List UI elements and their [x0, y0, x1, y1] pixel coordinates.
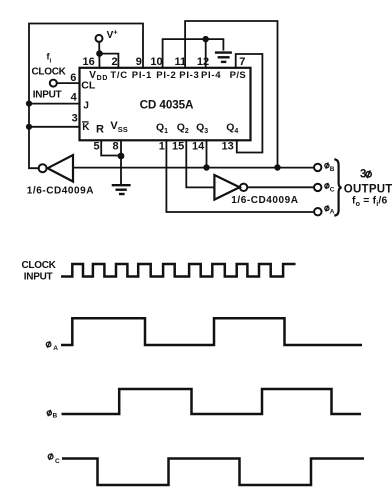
svg-text:15: 15 [172, 141, 184, 153]
svg-text:V+: V+ [107, 27, 119, 41]
ground (bottom, VSS) [113, 185, 129, 194]
svg-text:P/S: P/S [230, 70, 247, 81]
label: phi-C output [325, 183, 329, 189]
svg-text:16: 16 [83, 56, 95, 68]
svg-text:8: 8 [113, 141, 119, 153]
svg-text:VSS: VSS [110, 120, 127, 134]
node: junction VDD [96, 50, 103, 57]
label: phi-A (waveform) [46, 341, 51, 348]
wire: pin 15 (Q2) to inverter U3 input [186, 140, 214, 187]
wire: pin 5 (R) to pin 8 (VSS) [101, 140, 121, 155]
svg-text:7: 7 [239, 56, 245, 68]
wire: inverter U3 output to phi-C [247, 186, 313, 188]
wire: clock input to pin 6 (CL) [57, 82, 80, 84]
svg-text:11: 11 [175, 56, 187, 68]
wire: pin 12 stub [205, 39, 207, 68]
node: junction K on NOT-Q3 bus [26, 124, 32, 130]
svg-text:C: C [55, 458, 60, 465]
node: junction PI-4 on ground tie [203, 36, 209, 42]
wire: net NOT-Q3 vertical bus (inverter U2 output to J, K, PI-1) [29, 24, 143, 169]
svg-text:INPUT: INPUT [33, 89, 62, 100]
wire: K input wire (pin 3) [29, 126, 80, 128]
terminal: CLOCK INPUT [50, 80, 57, 87]
svg-text:INPUT: INPUT [24, 272, 53, 283]
label: phi-A output [325, 205, 329, 211]
svg-text:T/C: T/C [110, 70, 127, 81]
label: phi-C (waveform) [48, 453, 53, 460]
svg-text:Q1: Q1 [156, 121, 168, 135]
terminal: phi-C output [314, 184, 321, 191]
svg-text:12: 12 [197, 56, 209, 68]
svg-text:B: B [53, 413, 58, 420]
svg-text:Q4: Q4 [226, 121, 238, 135]
inverter U2 1/6-CD4009A (points left) [48, 155, 73, 182]
IC U1 CD4035A package outline [80, 68, 251, 141]
svg-text:Q2: Q2 [177, 121, 189, 135]
node: junction J on NOT-Q3 bus [26, 101, 32, 107]
inverter U2 bubble [39, 164, 47, 172]
svg-text:PI-3: PI-3 [179, 70, 199, 81]
node: junction R/VSS [118, 153, 125, 160]
svg-text:CD 4035A: CD 4035A [140, 99, 194, 112]
terminal: phi-B output [314, 164, 321, 171]
label: phi-B (waveform) [47, 410, 51, 416]
inverter U3 1/6-CD4009A (points right) [214, 175, 239, 200]
wire: pin 8 (VSS) down to ground [120, 140, 122, 183]
svg-text:J: J [83, 100, 89, 111]
svg-text:1/6-CD4009A: 1/6-CD4009A [27, 186, 94, 197]
svg-text:CLOCK: CLOCK [32, 67, 67, 78]
wire: clock input waveform [61, 264, 296, 277]
wire: pin 10 (PI-2) and pin 12 (PI-4) tie to ground [163, 39, 224, 68]
svg-text:5: 5 [94, 141, 100, 153]
node: junction Q3 [203, 164, 209, 170]
wire: pin 14 (Q3) stub to main line [206, 140, 208, 167]
svg-text:B: B [330, 166, 335, 173]
svg-text:9: 9 [136, 56, 142, 68]
svg-text:CLOCK: CLOCK [22, 260, 57, 271]
label: K-bar pin name [82, 122, 90, 133]
svg-text:CL: CL [81, 80, 96, 92]
svg-text:PI-4: PI-4 [201, 70, 221, 81]
svg-text:K: K [82, 122, 90, 133]
svg-text:3: 3 [72, 113, 78, 125]
svg-text:1/6-CD4009A: 1/6-CD4009A [231, 195, 298, 206]
wire: pin 11 (PI-3) loop to Q3 output line [185, 21, 277, 168]
svg-text:fo = fi/6: fo = fi/6 [352, 196, 387, 209]
svg-text:10: 10 [150, 56, 162, 68]
svg-text:2: 2 [112, 56, 118, 68]
inverter U3 bubble [240, 184, 247, 191]
ground (top, PI-2/PI-4) [216, 53, 231, 62]
svg-text:A: A [330, 209, 335, 216]
svg-text:fi: fi [47, 52, 52, 65]
wire: phi-C waveform [62, 459, 364, 486]
svg-text:Q3: Q3 [196, 121, 208, 135]
wire: phi-A waveform [61, 318, 362, 345]
wire: Q3 main horizontal line to phi-B [73, 167, 314, 169]
wire: V+ to pin 16 (VDD) [98, 42, 100, 68]
terminal: phi-A output [314, 208, 321, 215]
wire: VDD junction to pin 2 (T/C) [100, 54, 119, 68]
wire: J input wire (pin 4) [29, 103, 80, 105]
svg-text:14: 14 [192, 141, 205, 153]
svg-text:PI-2: PI-2 [156, 70, 176, 81]
svg-text:PI-1: PI-1 [132, 70, 152, 81]
svg-text:1: 1 [159, 141, 165, 153]
wire: phi-B waveform [62, 389, 362, 414]
svg-text:R: R [96, 123, 104, 135]
terminal: V+ supply [96, 35, 103, 42]
label: phi-B output [325, 163, 329, 169]
wire: pin 7 (P/S) to pin 13 (Q4) loop [236, 54, 263, 153]
svg-text:C: C [330, 186, 335, 193]
svg-text:6: 6 [70, 72, 76, 84]
brace: 3-phase output group [334, 159, 341, 215]
svg-text:A: A [53, 345, 58, 352]
svg-text:OUTPUT: OUTPUT [344, 183, 392, 195]
wire: pin 1 (Q1) to phi-A output [166, 140, 313, 212]
node: junction PI-3 loop on Q3 line [274, 164, 280, 170]
svg-text:13: 13 [222, 141, 234, 153]
svg-text:4: 4 [71, 92, 78, 104]
